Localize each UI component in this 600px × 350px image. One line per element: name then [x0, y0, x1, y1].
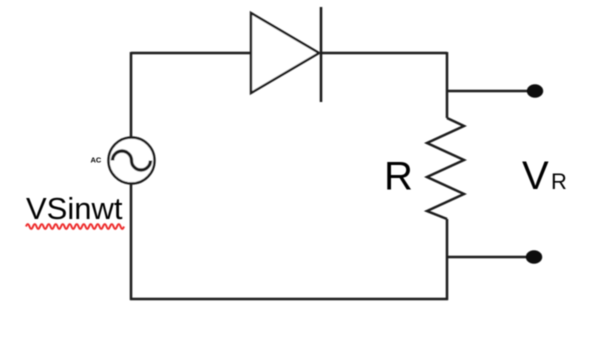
svg-text:AC: AC	[91, 156, 102, 165]
svg-text:VSinwt: VSinwt	[26, 191, 123, 226]
svg-text:V: V	[522, 154, 549, 198]
svg-text:R: R	[551, 169, 567, 194]
svg-text:R: R	[384, 155, 413, 199]
